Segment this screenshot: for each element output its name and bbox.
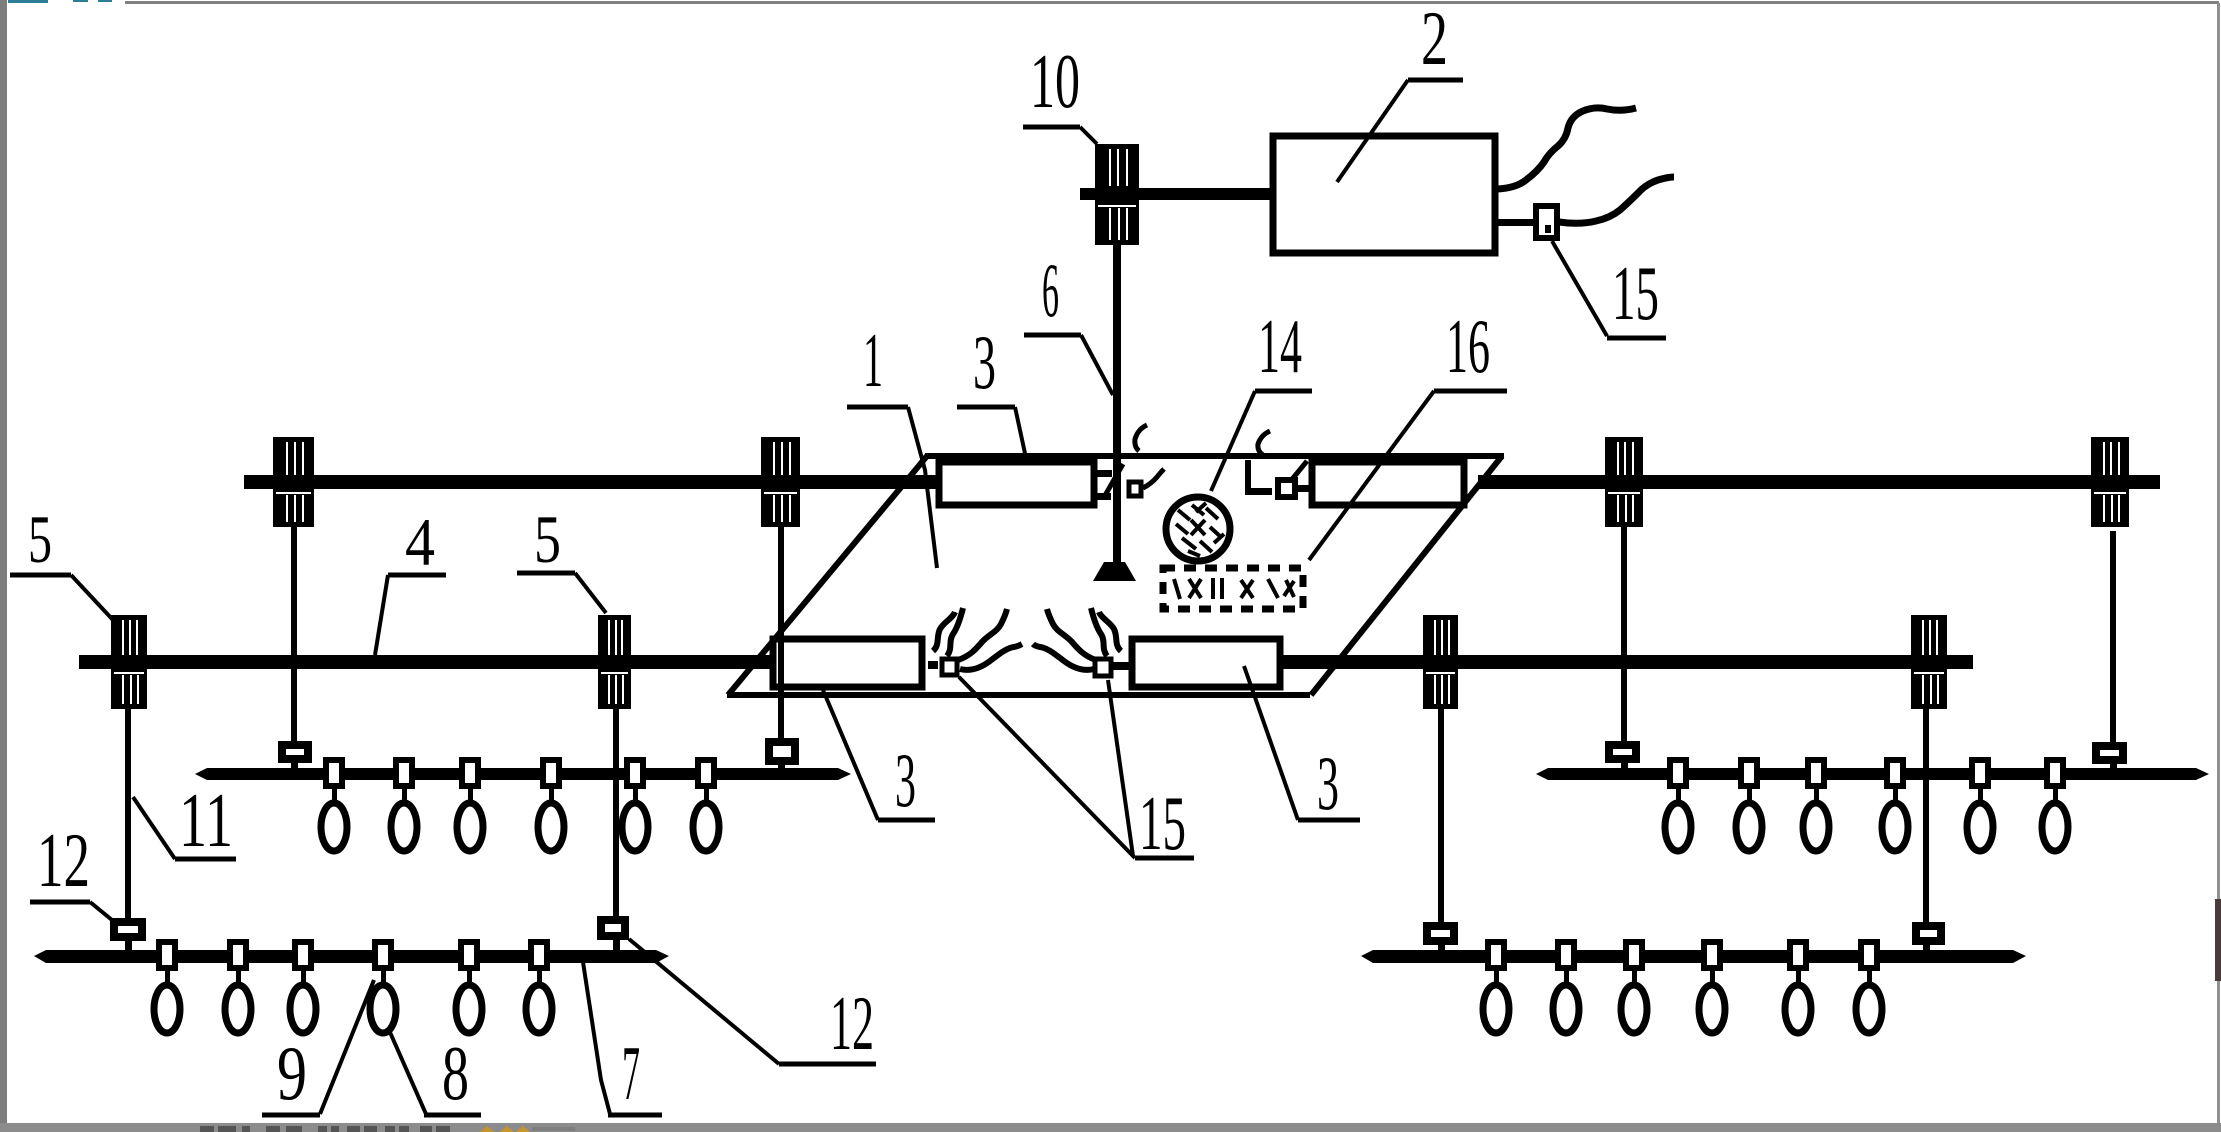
- drippers 8/9 on rail upper-left: [321, 760, 719, 851]
- roller 3 top-left: [939, 462, 1094, 505]
- drop rod from upper mid-right block: [1621, 527, 1627, 741]
- svg-text:11: 11: [179, 777, 233, 863]
- svg-text:12: 12: [37, 817, 90, 903]
- roller top-right: [1312, 462, 1464, 505]
- drop rod from lower far-right block: [1923, 709, 1929, 926]
- panel 1 bottom edge: [727, 692, 1310, 698]
- label 12 bottom: [629, 939, 876, 1066]
- panel 1 top edge: [925, 453, 1504, 459]
- drive shaft to motor: [1080, 188, 1270, 200]
- teal browser sliver 1: [8, 0, 48, 3]
- stub square to roller: [1298, 485, 1312, 492]
- drippers 8/9 on rail lower-left: [154, 942, 552, 1033]
- drip rail 7 upper-left: [195, 768, 851, 780]
- sensor square 15 top-right: [1278, 480, 1295, 497]
- drip rail 7 lower-left: [34, 950, 669, 963]
- curl above top-right bracket: [1258, 431, 1270, 455]
- drop rod from upper mid-left block: [778, 527, 784, 738]
- wavy wire right c: [1033, 644, 1094, 670]
- wavy wire left a: [947, 608, 963, 656]
- rail hanger box (under mid-right block): [1609, 745, 1636, 768]
- label 4: [375, 504, 446, 655]
- label 15 top: [1552, 241, 1666, 338]
- label 11: [133, 777, 236, 863]
- wire lower bus right segment: [1260, 655, 1973, 669]
- drop rod 11 from upper-left block: [291, 527, 297, 741]
- wire lower bus left segment: [79, 655, 800, 669]
- teal browser sliver 3: [98, 0, 112, 2]
- svg-text:2: 2: [1421, 0, 1448, 81]
- sensor square 15 top-left: [1129, 482, 1141, 496]
- svg-text:16: 16: [1446, 303, 1490, 389]
- leader 15 bottom second: [1108, 680, 1133, 856]
- wavy wire right d: [1099, 612, 1121, 651]
- svg-text:3: 3: [1317, 740, 1339, 826]
- drip rail lower-right: [1361, 950, 2026, 963]
- svg-text:10: 10: [1030, 38, 1080, 124]
- curl above shaft: [1135, 425, 1147, 451]
- coupler 12 mid-left: [601, 920, 625, 950]
- svg-text:7: 7: [622, 1030, 640, 1116]
- pipe clamp block (upper bus, far right): [2091, 437, 2129, 527]
- label 9: [262, 980, 374, 1116]
- wire upper bus left segment 4: [244, 475, 942, 489]
- label 8: [389, 1030, 481, 1116]
- clamp ticks right of top-left roller: [1096, 464, 1123, 500]
- motor box 2: [1273, 136, 1495, 253]
- pipe clamp block (lower bus, mid right): [1423, 615, 1458, 709]
- drop rod from upper far-right block: [2110, 531, 2116, 742]
- roller 3 bottom-right: [1132, 639, 1280, 687]
- label 5 mid: [517, 501, 606, 613]
- fruit 14 hatched circle: [1166, 497, 1230, 561]
- watermark gold marks: [480, 1126, 530, 1132]
- label 3 top: [957, 319, 1026, 458]
- drop rod 11 from lower-left block: [125, 709, 131, 918]
- pipe clamp block (upper bus, mid right): [1605, 437, 1643, 527]
- hook wire from top-left sensor: [1143, 469, 1164, 488]
- drop rod from lower mid-left block: [613, 709, 619, 916]
- label 3 bottom-left: [823, 690, 935, 823]
- svg-text:6: 6: [1042, 247, 1059, 333]
- svg-text:8: 8: [442, 1030, 469, 1116]
- svg-text:5: 5: [28, 501, 52, 577]
- frame top gray line: [125, 1, 2219, 4]
- sensor square 15 bottom-right: [1095, 659, 1129, 676]
- svg-text:3: 3: [973, 319, 996, 405]
- svg-text:5: 5: [534, 501, 561, 577]
- drippers on rail lower-right: [1483, 942, 1882, 1033]
- shaft stand foot: [1093, 562, 1136, 581]
- coupler 12 left: [114, 922, 142, 950]
- pipe clamp block 5 (lower bus, mid left): [598, 615, 631, 709]
- bracket left of top-right roller: [1245, 460, 1307, 495]
- pipe clamp block (lower bus, far right): [1911, 615, 1947, 709]
- svg-text:14: 14: [1258, 303, 1302, 389]
- frame right gray border: [2217, 3, 2220, 1125]
- cable from motor top: [1498, 108, 1636, 189]
- wavy wire right a: [1091, 608, 1107, 656]
- drop rod from lower mid-right block: [1438, 709, 1444, 926]
- svg-text:4: 4: [405, 504, 435, 580]
- wire upper bus right segment: [1478, 475, 2160, 489]
- label 7: [583, 962, 662, 1116]
- drip rail upper-right: [1536, 768, 2209, 780]
- rail hanger box (under upper-left block): [282, 745, 308, 768]
- roller 3 bottom-left: [773, 639, 922, 687]
- panel 1 right slant edge: [1311, 456, 1502, 695]
- watermark glyph tops: [200, 1126, 575, 1132]
- sensor square 15 bottom-left: [928, 659, 957, 675]
- bottom gray bar: [0, 1123, 2221, 1132]
- label 14: [1211, 303, 1312, 491]
- wavy wire left d: [933, 612, 955, 651]
- label 1: [847, 317, 937, 568]
- label 10: [1023, 38, 1097, 144]
- gear block 10: [1095, 144, 1139, 245]
- label 12 left: [30, 817, 112, 920]
- svg-text:15: 15: [1139, 780, 1186, 866]
- svg-text:3: 3: [895, 737, 916, 823]
- shaft 6 vertical rod: [1113, 245, 1121, 562]
- svg-text:1: 1: [863, 317, 883, 403]
- label 15 bottom: [959, 677, 1194, 866]
- dark mark right edge: [2215, 899, 2221, 981]
- svg-text:15: 15: [1612, 250, 1659, 336]
- frame left gray border: [0, 0, 7, 1132]
- svg-text:9: 9: [277, 1030, 307, 1116]
- panel 1 left slant edge: [728, 456, 927, 695]
- rail hanger box (under mid-left block): [769, 742, 795, 768]
- label 2: [1337, 0, 1463, 182]
- pipe clamp block 5 (upper bus, far left): [273, 437, 314, 527]
- plug 15 connector: [1536, 206, 1557, 238]
- wavy wire left c: [960, 644, 1022, 670]
- label 3 bottom-right: [1244, 666, 1360, 826]
- label 6: [1024, 247, 1113, 395]
- teal browser sliver 2: [73, 0, 88, 2]
- wavy wire left b: [958, 609, 1007, 660]
- rail hanger box (under far-right block): [2096, 746, 2123, 768]
- label 16: [1309, 303, 1507, 560]
- seed band 16 dashed box: [1163, 568, 1303, 609]
- drippers on rail upper-right: [1665, 760, 2068, 851]
- cable from plug: [1559, 177, 1674, 223]
- stub motor to plug: [1498, 219, 1534, 226]
- label 5 left: [10, 501, 113, 620]
- coupler 12 mid-right: [1427, 926, 1454, 950]
- svg-text:12: 12: [830, 980, 874, 1066]
- pipe clamp block 5 (lower bus, far left): [111, 615, 147, 709]
- pipe clamp block (upper bus, mid left): [761, 437, 800, 527]
- wavy wire right b: [1047, 609, 1096, 660]
- coupler 12 far-right: [1916, 926, 1941, 950]
